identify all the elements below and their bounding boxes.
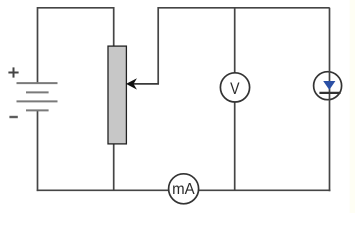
wire wiper horizontal shaft: [132, 83, 159, 85]
potentiometer R1 body: [108, 46, 126, 144]
battery B1 minus sign: [9, 116, 17, 118]
wire battery negative down to bottom rail: [37, 110, 39, 191]
svg-text:V: V: [230, 80, 240, 98]
wire potentiometer bottom to bottom rail: [113, 144, 115, 190]
potentiometer R1 wiper arrowhead: [127, 79, 136, 88]
wire LED branch vertical through circle: [329, 8, 331, 191]
milliammeter A1 circle: [169, 174, 199, 204]
battery B1 plus sign: [8, 67, 18, 77]
voltmeter V1 circle: [220, 73, 249, 102]
LED D1 circle: [314, 72, 342, 100]
wire top-left rail from battery to potentiometer top: [38, 8, 114, 84]
LED D1 triangle anode: [323, 81, 335, 90]
LED D1 cathode bar: [319, 92, 340, 94]
wire voltmeter branch bottom: [234, 102, 236, 191]
battery B1 plates: [17, 83, 58, 110]
wire top rail right section with corners: [158, 8, 330, 84]
background tint strip at right edge: [350, 0, 355, 213]
wire voltmeter branch top: [234, 8, 236, 74]
wire bottom rail right segment (mA meter to LED branch): [199, 189, 331, 191]
svg-text:mA: mA: [172, 180, 195, 198]
wire bottom rail left segment (battery to mA meter): [37, 189, 169, 191]
